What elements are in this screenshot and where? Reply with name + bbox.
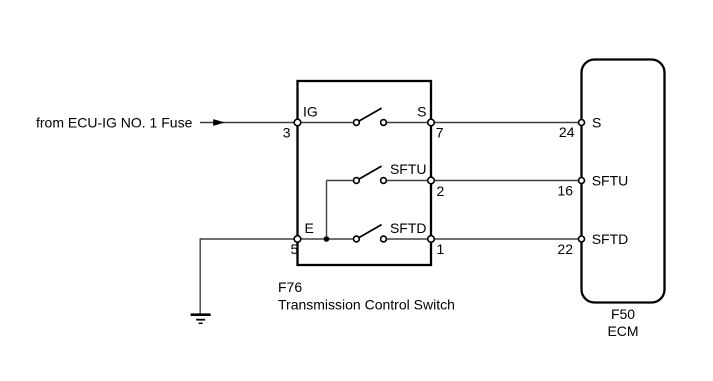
svg-text:IG: IG bbox=[303, 103, 318, 119]
switch SW3 (SFTD) bbox=[354, 225, 387, 242]
switch SW1 (IG-S) bbox=[354, 108, 387, 125]
wire from fuse to pin 3 (IG) with arrow bbox=[200, 119, 294, 126]
svg-text:SFTD: SFTD bbox=[390, 220, 427, 236]
terminal pin 3 (IG) bbox=[294, 119, 301, 126]
wire pin 1 (SFTD) to ECM pin 22 bbox=[434, 238, 578, 240]
wire switch SW1 to pin 7 (S) bbox=[386, 122, 428, 124]
svg-text:22: 22 bbox=[557, 241, 573, 257]
svg-text:S: S bbox=[592, 115, 601, 131]
svg-text:ECM: ECM bbox=[607, 323, 638, 339]
svg-text:3: 3 bbox=[283, 125, 291, 141]
svg-text:1: 1 bbox=[437, 241, 445, 257]
ground bbox=[191, 315, 211, 324]
svg-text:from ECU-IG NO. 1 Fuse: from ECU-IG NO. 1 Fuse bbox=[36, 115, 193, 131]
wire pin 5 (E) to switch SW3 bbox=[301, 238, 354, 240]
wire pin 2 (SFTU) to ECM pin 16 bbox=[434, 180, 578, 182]
terminal ECM pin 16 (SFTU) bbox=[579, 178, 585, 184]
wire node E riser to switch SW2 (SFTU) bbox=[327, 181, 354, 240]
wire switch SW3 to pin 1 (SFTD) bbox=[386, 238, 428, 240]
terminal ECM pin 22 (SFTD) bbox=[579, 236, 585, 242]
ECM box F50 bbox=[582, 60, 665, 303]
svg-text:SFTU: SFTU bbox=[390, 161, 427, 177]
svg-text:5: 5 bbox=[291, 241, 299, 257]
wire switch SW2 to pin 2 (SFTU) bbox=[386, 180, 428, 182]
wire pin3 to switch SW1 bbox=[301, 122, 354, 124]
junction node E bbox=[324, 236, 330, 242]
terminal pin 2 (SFTU) bbox=[428, 177, 435, 184]
wire pin 7 (S) to ECM pin 24 bbox=[434, 122, 578, 124]
svg-text:24: 24 bbox=[559, 124, 575, 140]
svg-text:S: S bbox=[417, 103, 426, 119]
svg-text:F76: F76 bbox=[278, 279, 302, 295]
wire ground riser and horizontal run to pin 5 (E) bbox=[200, 238, 294, 314]
terminal ECM pin 24 (S) bbox=[579, 120, 585, 126]
svg-text:7: 7 bbox=[436, 125, 444, 141]
svg-text:F50: F50 bbox=[611, 306, 635, 322]
svg-text:SFTU: SFTU bbox=[592, 173, 629, 189]
svg-text:16: 16 bbox=[557, 183, 573, 199]
switch SW2 (SFTU) bbox=[354, 166, 387, 183]
svg-text:2: 2 bbox=[437, 183, 445, 199]
terminal pin 7 (S) bbox=[428, 119, 435, 126]
terminal pin 1 (SFTD) bbox=[428, 236, 435, 243]
svg-text:Transmission Control Switch: Transmission Control Switch bbox=[278, 297, 455, 313]
box F76 Transmission Control Switch bbox=[298, 81, 432, 265]
svg-text:E: E bbox=[305, 220, 314, 236]
terminal pin 5 (E) bbox=[294, 236, 301, 243]
svg-text:SFTD: SFTD bbox=[592, 231, 629, 247]
